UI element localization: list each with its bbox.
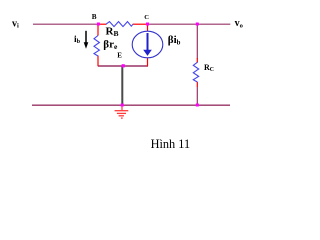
node junction bottom right	[196, 104, 199, 107]
svg-text:ib: ib	[74, 35, 81, 45]
wire node C to output vo	[148, 23, 231, 25]
wire RC column upper	[196, 24, 198, 59]
ground	[115, 105, 129, 118]
wire input vi to node B	[33, 23, 98, 25]
svg-text:vo: vo	[235, 18, 243, 29]
current source arrow	[147, 33, 149, 50]
svg-text:RB: RB	[106, 25, 119, 38]
resistor RB	[106, 22, 133, 27]
wire red stub RC top	[196, 58, 198, 63]
wire red stub beta-re down to E bracket	[97, 56, 99, 67]
wire black E down to ground rail	[121, 66, 123, 105]
wire red stub RB to C	[133, 23, 148, 25]
arrow ib current	[85, 31, 87, 43]
node ground junction	[121, 104, 124, 107]
wire bottom ground rail	[32, 104, 230, 106]
svg-text:RC: RC	[204, 63, 214, 73]
svg-text:Hình 11: Hình 11	[151, 137, 191, 151]
svg-text:βib: βib	[168, 34, 181, 47]
svg-text:vi: vi	[12, 18, 19, 29]
node C	[146, 23, 149, 26]
wire red stub C down to source	[147, 24, 149, 32]
svg-text:B: B	[92, 13, 97, 21]
wire red stub source bottom to E bracket	[147, 58, 149, 67]
node B	[97, 23, 100, 26]
resistor RC	[193, 62, 198, 82]
wire RC column lower	[196, 87, 198, 105]
svg-text:C: C	[144, 14, 149, 21]
svg-text:βre: βre	[103, 38, 118, 51]
wire red stub RC bottom	[196, 82, 198, 87]
wire red stub B down to beta-re	[97, 24, 99, 36]
wire red stub B to RB	[98, 23, 107, 25]
svg-text:E: E	[117, 52, 122, 60]
current source U1 circle	[132, 31, 163, 58]
wire emitter bracket horizontal	[98, 65, 148, 67]
node junction top right	[196, 23, 199, 26]
node E	[122, 64, 125, 67]
resistor beta-re	[94, 36, 99, 57]
